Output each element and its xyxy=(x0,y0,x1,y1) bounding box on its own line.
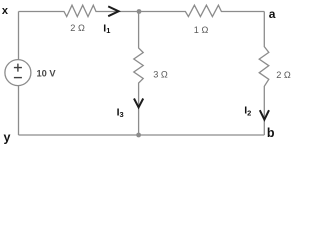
current arrow I1 (chevron on top wire) xyxy=(108,6,118,16)
svg-text:2 Ω: 2 Ω xyxy=(276,70,291,80)
svg-text:I2: I2 xyxy=(244,105,251,118)
current arrow I2 (down arrowhead on right branch) xyxy=(260,110,269,119)
svg-text:x: x xyxy=(2,5,9,17)
current arrow I3 (down arrowhead on middle branch) xyxy=(134,99,143,108)
wire bottom (y to b) xyxy=(19,134,265,136)
voltage source V1 circle xyxy=(5,60,31,86)
svg-text:2 Ω: 2 Ω xyxy=(70,23,85,33)
wire left lower (source - to node y) xyxy=(18,86,20,135)
svg-text:a: a xyxy=(269,7,276,21)
svg-text:I1: I1 xyxy=(103,22,110,35)
svg-text:I3: I3 xyxy=(117,106,124,119)
junction dot top (middle branch / top wire) xyxy=(137,9,142,14)
svg-text:1 Ω: 1 Ω xyxy=(194,25,209,35)
voltage source plus sign xyxy=(14,64,22,72)
svg-text:y: y xyxy=(4,130,11,144)
svg-text:3 Ω: 3 Ω xyxy=(153,69,168,79)
wire right branch with resistor R4 zigzag xyxy=(259,12,269,136)
voltage source minus sign xyxy=(14,77,22,79)
svg-text:10 V: 10 V xyxy=(37,69,57,79)
svg-text:b: b xyxy=(267,126,275,140)
wire left upper (node x to source +) xyxy=(18,12,20,60)
wire top-left segment with resistor R1 zigzag and R2 zigzag inline xyxy=(19,5,265,16)
junction dot bottom (middle branch / bottom wire) xyxy=(136,133,141,138)
wire middle branch with resistor R3 zigzag xyxy=(134,12,143,136)
